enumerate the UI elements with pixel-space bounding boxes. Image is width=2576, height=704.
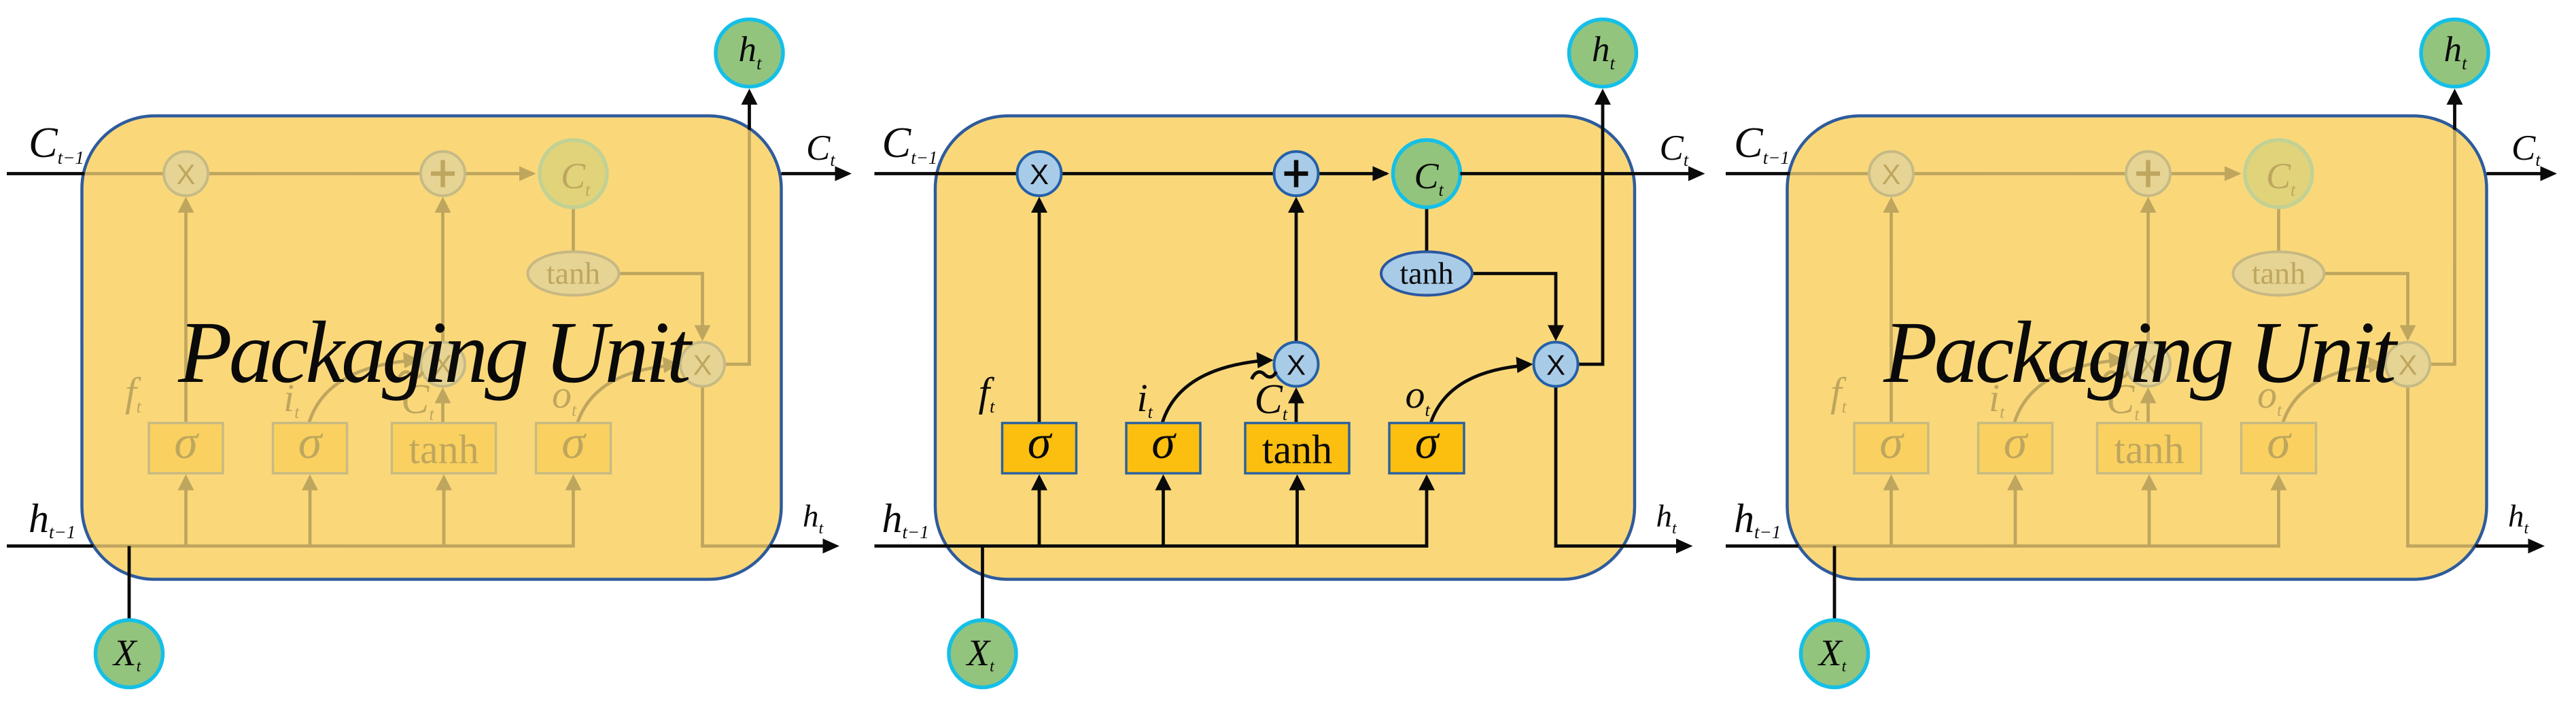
node h_t (top) <box>2421 20 2488 87</box>
wire: h_t output <box>1624 544 1684 548</box>
wire: candidate to adder <box>2146 208 2150 342</box>
wire: forget gate output <box>184 208 188 425</box>
svg-text:X: X <box>1546 349 1565 381</box>
arrowhead into gate <box>436 474 452 491</box>
tilde accent <box>1252 372 1276 379</box>
svg-text:ht: ht <box>2508 499 2530 538</box>
wire: C_{t-1} input stub <box>1726 172 1790 175</box>
wire: C_t output stub <box>782 172 843 175</box>
svg-text:X: X <box>693 349 712 381</box>
wire: input gate curve <box>2015 360 2121 423</box>
wire: hidden state bus <box>945 487 1427 546</box>
tilde accent <box>398 372 423 379</box>
right panel: packaging unit (ghost LSTM cell) <box>1726 20 2557 688</box>
svg-text:tanh: tanh <box>2114 427 2184 472</box>
sigma box: output gate <box>2242 423 2316 474</box>
arrowhead into gate <box>2007 474 2023 491</box>
wire: tanh gate output <box>2146 398 2150 425</box>
svg-text:σ: σ <box>1879 417 1904 469</box>
wire: output multiply to h_t <box>725 129 750 364</box>
svg-text:σ: σ <box>174 417 199 469</box>
svg-text:X: X <box>1881 158 1900 190</box>
wire: candidate to adder <box>441 208 445 342</box>
wire: C_{t-1} input stub <box>7 172 84 175</box>
tanh ellipse <box>1381 252 1472 296</box>
wire: h_t output lower <box>703 387 771 546</box>
wire: cell-state line C <box>934 172 1387 175</box>
multiply node: forget <box>1017 152 1062 196</box>
svg-text:σ: σ <box>561 417 587 469</box>
wire: h_{t-1} input stub <box>7 544 93 548</box>
ghosted internal circuitry <box>1786 129 2476 546</box>
tanh ellipse <box>2233 252 2325 296</box>
wire: gate input branch <box>1890 487 1893 546</box>
arrowhead into gate <box>565 474 582 491</box>
svg-text:X: X <box>2398 349 2417 381</box>
wire: tanh gate output <box>1295 398 1298 425</box>
wire: h_t output lower <box>1556 387 1624 546</box>
tilde accent <box>2104 372 2128 379</box>
multiply node: candidate <box>421 342 465 387</box>
multiply node: output <box>2386 342 2430 387</box>
sigma box: output gate <box>536 423 611 474</box>
node X_t (bottom) <box>96 620 163 688</box>
arrowhead into gate <box>2141 474 2157 491</box>
tanh box: candidate gate <box>2098 423 2201 474</box>
wire: gate input branch <box>1162 487 1165 546</box>
svg-text:Packaging Unit: Packaging Unit <box>1883 304 2398 402</box>
svg-text:tanh: tanh <box>1399 256 1453 291</box>
node X_t (bottom) <box>949 620 1016 688</box>
svg-text:σ: σ <box>1415 417 1440 469</box>
svg-text:σ: σ <box>1028 417 1053 469</box>
wire: forget gate output <box>1038 208 1041 425</box>
svg-text:tanh: tanh <box>1262 427 1332 472</box>
arrowhead into C_t node <box>1373 166 1390 181</box>
sigma box: forget gate <box>149 423 223 474</box>
wire: C_t to tanh <box>572 207 575 253</box>
adder node <box>1274 152 1319 196</box>
arrowhead into C_t node <box>519 166 536 181</box>
wire: C_{t-1} input <box>875 172 938 175</box>
wire: hidden state bus <box>92 487 574 546</box>
sigma box: input gate <box>273 423 347 474</box>
svg-text:ht: ht <box>1656 499 1678 538</box>
wire: h_{t-1} input <box>875 544 947 548</box>
multiply node: candidate <box>2126 342 2170 387</box>
node h_t (top) <box>1569 20 1637 87</box>
sigma box: input gate <box>1126 423 1200 474</box>
wire: tanh to output multiply <box>2323 274 2408 330</box>
multiply node: output <box>1534 342 1578 387</box>
wire: h_t top stub <box>2453 103 2456 130</box>
svg-text:tanh: tanh <box>408 427 478 472</box>
arrowhead into gate <box>1031 474 1047 491</box>
multiply node: forget <box>164 152 208 196</box>
wire: input gate curve <box>1162 360 1268 423</box>
svg-text:σ: σ <box>2267 417 2292 469</box>
node C_t <box>540 140 607 207</box>
wire: gate input branch <box>2148 487 2151 546</box>
arrowhead into gate <box>1418 474 1435 491</box>
arrowhead into gate <box>1289 474 1306 491</box>
svg-text:ht−1: ht−1 <box>29 496 75 542</box>
wire: output gate curve <box>2283 366 2380 423</box>
arrowhead into gate <box>1155 474 1172 491</box>
wire: tanh to output multiply <box>618 274 703 330</box>
wire: X_t input <box>1833 546 1837 620</box>
svg-text:Ct−1: Ct−1 <box>29 118 84 168</box>
wire: tanh gate output <box>441 398 445 425</box>
svg-text:X: X <box>176 158 195 190</box>
left panel: packaging unit (ghost LSTM cell) <box>7 20 852 688</box>
arrowhead into gate <box>302 474 318 491</box>
tanh box: candidate gate <box>1245 423 1349 474</box>
wire: C_t output stub <box>2487 172 2549 175</box>
svg-text:Ct: Ct <box>806 128 835 170</box>
wire: h_t top <box>1601 103 1605 117</box>
multiply node: candidate <box>1274 342 1319 387</box>
svg-text:Ct: Ct <box>2511 128 2541 170</box>
wire: forget gate output <box>1890 208 1893 425</box>
node C_t <box>2245 140 2312 207</box>
wire: output gate curve <box>1431 366 1528 423</box>
wire: input gate curve <box>309 360 415 423</box>
sigma box: input gate <box>1979 423 2053 474</box>
wire: h_t output lower <box>2408 387 2477 546</box>
wire: cell-state line C <box>80 172 534 175</box>
svg-text:Ct−1: Ct−1 <box>1734 118 1790 168</box>
wire: hidden state bus <box>1797 487 2279 546</box>
wire: h_t output stub <box>770 544 831 548</box>
wire: C_t to tanh <box>1425 207 1429 253</box>
node h_t (top) <box>716 20 783 87</box>
node C_t <box>1393 140 1461 207</box>
wire: output multiply to h_t <box>2430 129 2455 364</box>
svg-text:σ: σ <box>2004 417 2029 469</box>
svg-text:tanh: tanh <box>2252 256 2305 291</box>
svg-text:Ct−1: Ct−1 <box>882 118 938 168</box>
arrowhead into gate <box>178 474 194 491</box>
arrowhead into C_t node <box>2225 166 2242 181</box>
LSTM cell body <box>1788 116 2487 580</box>
svg-text:X: X <box>1287 349 1306 381</box>
svg-text:tanh: tanh <box>546 256 600 291</box>
wire: gate input branch <box>1038 487 1041 546</box>
svg-text:X: X <box>1030 158 1049 190</box>
LSTM cell body <box>82 116 782 580</box>
wire: candidate to adder <box>1295 208 1298 342</box>
wire: gate input branch <box>184 487 188 546</box>
svg-text:ht: ht <box>803 499 824 538</box>
svg-text:ht−1: ht−1 <box>1734 496 1781 542</box>
sigma box: output gate <box>1389 423 1464 474</box>
wire: X_t input <box>981 546 984 620</box>
svg-text:Packaging Unit: Packaging Unit <box>177 304 693 402</box>
svg-text:σ: σ <box>298 417 324 469</box>
sigma box: forget gate <box>1003 423 1077 474</box>
adder node <box>421 152 465 196</box>
svg-text:σ: σ <box>1151 417 1177 469</box>
arrowhead into gate <box>2271 474 2287 491</box>
svg-text:Ct: Ct <box>1660 128 1689 170</box>
wire: h_{t-1} input stub <box>1726 544 1798 548</box>
ghosted internal circuitry <box>80 129 771 546</box>
arrowhead into gate <box>1883 474 1900 491</box>
multiply node: forget <box>1869 152 1913 196</box>
tanh box: candidate gate <box>392 423 496 474</box>
tanh ellipse <box>528 252 619 296</box>
wire: output multiply to h_t <box>1578 116 1603 365</box>
middle panel: detailed LSTM cell <box>875 20 1705 688</box>
wire: gate input branch <box>2014 487 2017 546</box>
multiply node: output <box>680 342 725 387</box>
wire: C_t to tanh <box>2277 207 2280 253</box>
wire: gate input branch <box>442 487 446 546</box>
wire: cell-state line C <box>1786 172 2239 175</box>
wire: h_t output stub <box>2475 544 2536 548</box>
wire: output gate curve <box>578 366 675 423</box>
wire: X_t input <box>128 546 131 620</box>
wire: C_t output <box>1461 172 1696 175</box>
wire: gate input branch <box>1295 487 1299 546</box>
svg-text:ht−1: ht−1 <box>882 496 929 542</box>
node X_t (bottom) <box>1801 620 1868 688</box>
wire: h_t top stub <box>748 103 751 130</box>
wire: tanh to output multiply <box>1471 274 1556 330</box>
adder node <box>2126 152 2170 196</box>
LSTM cell body <box>935 116 1635 580</box>
sigma box: forget gate <box>1854 423 1928 474</box>
wire: gate input branch <box>309 487 312 546</box>
